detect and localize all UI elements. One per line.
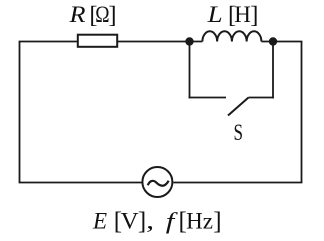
svg-text:]: ]: [250, 2, 258, 29]
wire: switch branch left horizontal contact: [189, 97, 226, 99]
wire: top middle segment resistor to coil: [117, 41, 202, 43]
wire: left side vertical: [19, 42, 21, 183]
wire: switch branch left vertical: [189, 42, 191, 99]
wire: switch branch right horizontal: [249, 97, 274, 99]
svg-text:E: E: [92, 209, 107, 234]
svg-text:,: ,: [146, 209, 154, 234]
label R [Ω]: [68, 2, 116, 29]
svg-text:R: R: [68, 2, 85, 27]
svg-text:f: f: [166, 209, 179, 234]
resistor R: [78, 35, 117, 47]
AC source circle: [142, 167, 172, 197]
wire: top right segment coil to corner: [261, 41, 302, 43]
svg-text:]: ]: [213, 208, 221, 235]
wire: right side vertical: [301, 42, 303, 183]
wire: top left segment to resistor: [19, 41, 77, 43]
wire: bottom right segment: [173, 182, 302, 184]
wire: switch branch right vertical: [272, 42, 274, 99]
inductor L (coil): [202, 31, 261, 41]
node dot right (junction): [269, 37, 277, 45]
node dot left (junction): [185, 37, 193, 45]
svg-text:H: H: [234, 2, 251, 27]
svg-text:Ω: Ω: [95, 2, 109, 27]
svg-text:Hz: Hz: [186, 209, 213, 234]
svg-text:S: S: [234, 120, 244, 145]
wire: bottom left segment: [19, 182, 142, 184]
svg-text:]: ]: [138, 208, 146, 235]
AC source sine tilde: [148, 181, 169, 186]
label L [H]: [206, 2, 258, 29]
svg-text:L: L: [206, 2, 222, 27]
svg-text:V: V: [121, 209, 139, 234]
svg-text:]: ]: [108, 2, 116, 29]
switch S blade (open): [228, 98, 249, 116]
label E [V], f [Hz]: [92, 208, 222, 235]
